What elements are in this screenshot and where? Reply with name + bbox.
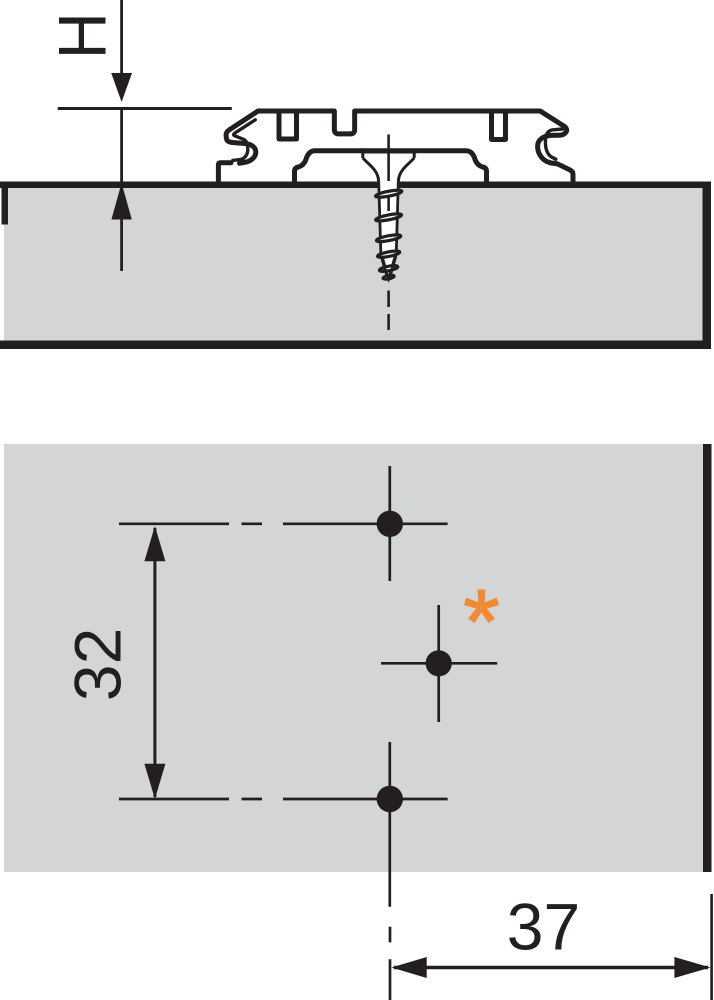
middle hole center line vertical: [437, 605, 440, 722]
screw thread 6: [383, 274, 395, 280]
bottom drill hole: [377, 786, 403, 812]
svg-text:H: H: [44, 12, 120, 59]
side view: panel cross-section: [0, 182, 711, 350]
32 up arrowhead: [144, 526, 165, 561]
screw center line dash below tip: [387, 291, 390, 308]
H dim line upper segment: [120, 0, 123, 74]
H dim line middle segment: [120, 110, 123, 182]
top drill hole: [377, 511, 403, 537]
bottom hole extension dash-dot: short dash: [242, 798, 263, 801]
plate right hook curl: [538, 127, 567, 163]
screw center line dash inside shank: [387, 198, 390, 212]
plate top bar with notch and chamfers: [230, 111, 565, 134]
plan panel gray body: [4, 444, 703, 872]
screw tip point: [386, 275, 392, 282]
screw center line dash 2 below tip: [387, 314, 390, 330]
plate right hook inner surface: [545, 129, 562, 159]
37 left arrowhead: [391, 957, 426, 978]
dimension H: [44, 0, 231, 271]
plan view: panel with drilling positions: [4, 444, 712, 872]
bottom hole center line vertical: [388, 742, 391, 907]
H reference line at plate top: [58, 107, 232, 110]
screw shank white fill over panel: [377, 182, 398, 281]
svg-text:32: 32: [61, 628, 135, 701]
plate left fastening hole: [279, 111, 297, 139]
screw thread 5: [379, 265, 398, 273]
H up arrowhead at panel surface: [111, 183, 131, 220]
37 dim line: [394, 966, 708, 969]
plate left hook curl: [226, 130, 256, 164]
plate right fastening hole: [492, 111, 506, 140]
middle hole center line horizontal: [381, 662, 497, 665]
screw thread 3: [376, 233, 401, 242]
screw thread 2: [375, 213, 402, 223]
bottom center line dash below panel: [389, 927, 392, 943]
screw thread 1: [375, 189, 402, 199]
panel top edge: [0, 182, 711, 189]
panel left corner tick: [2, 182, 9, 225]
37 right arrowhead: [674, 957, 710, 978]
top hole center line vertical: [388, 466, 391, 581]
screw thread 4: [377, 250, 400, 259]
32 dim line: [153, 528, 156, 797]
plate right foot: [551, 163, 574, 182]
svg-text:37: 37: [507, 889, 580, 963]
screw head trumpet left: [363, 158, 379, 182]
screw: [361, 135, 417, 331]
plate left hook inner surface: [233, 120, 256, 161]
screw shank right edge: [389, 182, 399, 280]
orange asterisk marker: [464, 590, 499, 624]
bottom hole center line horizontal: [283, 798, 448, 801]
screw head white fill: [362, 154, 415, 179]
dimension 37: [391, 889, 710, 978]
top hole center line horizontal: [283, 522, 448, 525]
37 extension line right: [710, 894, 713, 1000]
plate left foot: [218, 163, 231, 182]
panel bottom edge: [0, 341, 711, 350]
H dim line lower stem: [120, 219, 123, 271]
H down arrowhead: [111, 73, 132, 102]
bottom hole extension dash-dot: long dash: [119, 798, 229, 801]
32 down arrowhead: [144, 764, 165, 799]
panel gray body: [4, 187, 703, 341]
screw shank left edge: [379, 182, 389, 280]
top hole extension dash-dot: short dash: [242, 522, 263, 525]
dimension 32: [61, 526, 166, 799]
mounting plate cross-section: [218, 111, 573, 182]
screw head trumpet right: [398, 158, 414, 182]
top hole extension dash-dot: long dash: [119, 522, 229, 525]
bottom center line solid to page bottom: [389, 959, 392, 1000]
screw center line above: [387, 135, 390, 182]
panel right edge: [703, 182, 712, 350]
plate base hump top and right side: [361, 151, 487, 182]
plan panel front edge band: [703, 444, 712, 872]
screw head recess right tick: [413, 154, 416, 159]
screw head top line: [361, 149, 417, 154]
screw tip cone: [381, 256, 396, 277]
screw head recess left tick: [361, 154, 364, 159]
middle drill hole: [426, 650, 452, 676]
plate base hump left side: [295, 151, 362, 182]
